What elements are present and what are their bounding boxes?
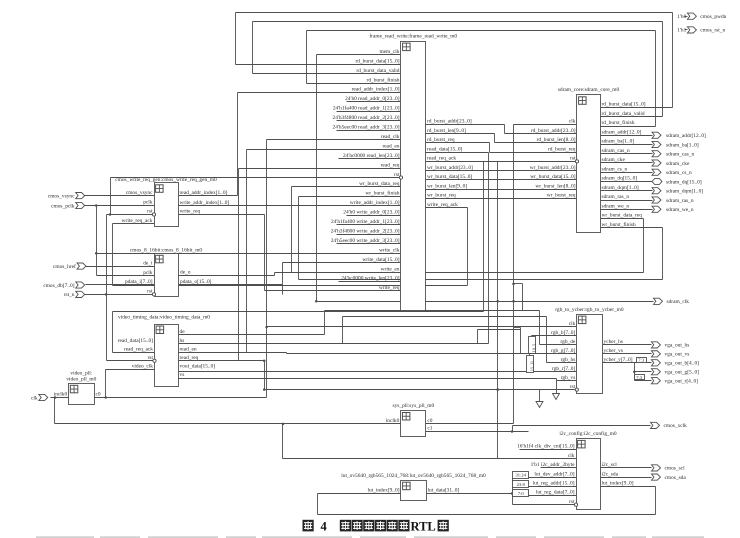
svg-text:10..5: 10..5	[531, 344, 536, 352]
svg-text:pclk: pclk	[143, 270, 153, 276]
svg-text:wr_burst_finish: wr_burst_finish	[365, 190, 399, 197]
svg-text:cmos_xclk: cmos_xclk	[664, 423, 688, 429]
svg-text:read_req: read_req	[381, 162, 400, 168]
svg-text:cmos_write_req_gen:cmos_write_: cmos_write_req_gen:cmos_write_req_gen_m0	[115, 177, 217, 183]
svg-text:inclk0: inclk0	[386, 418, 400, 424]
svg-text:24'h0 write_addr_0[23..0]: 24'h0 write_addr_0[23..0]	[343, 210, 399, 216]
svg-text:rst: rst	[569, 499, 575, 505]
svg-text:rd_burst_addr[23..0]: rd_burst_addr[23..0]	[427, 119, 472, 125]
svg-text:rst: rst	[148, 355, 154, 361]
svg-text:cmos_vsync: cmos_vsync	[126, 190, 153, 196]
svg-text:pclk: pclk	[143, 200, 153, 206]
svg-text:cmos_href: cmos_href	[53, 263, 76, 270]
svg-text:rgb_to_ycber:rgb_to_ycber_m0: rgb_to_ycber:rgb_to_ycber_m0	[555, 307, 624, 313]
svg-text:vga_out_vs: vga_out_vs	[665, 352, 690, 358]
svg-text:wr_burst_len[8..0]: wr_burst_len[8..0]	[535, 183, 575, 189]
svg-text:1'h1: 1'h1	[677, 28, 686, 34]
svg-text:video_timing_data:video_timing: video_timing_data:video_timing_data_m0	[118, 315, 210, 321]
svg-text:de_i: de_i	[143, 260, 153, 266]
svg-text:rd_burst_finish: rd_burst_finish	[367, 76, 400, 83]
svg-text:rd_burst_data[15..0]: rd_burst_data[15..0]	[355, 58, 399, 64]
svg-text:sdram_dqm[1..0]: sdram_dqm[1..0]	[666, 189, 703, 195]
svg-text:read_req: read_req	[180, 355, 199, 361]
svg-text:sdram_cas_n: sdram_cas_n	[602, 148, 630, 154]
svg-text:ycber_y[7..0]: ycber_y[7..0]	[604, 357, 633, 363]
svg-text:inclk0: inclk0	[54, 392, 68, 398]
svg-text:sdram_cke: sdram_cke	[666, 161, 690, 167]
svg-text:rgb_de: rgb_de	[560, 339, 575, 345]
svg-text:sdram_core:sdram_core_m0: sdram_core:sdram_core_m0	[558, 87, 620, 93]
svg-text:pdata_o[15..0]: pdata_o[15..0]	[180, 279, 212, 285]
svg-text:clk: clk	[568, 453, 575, 459]
svg-text:lut_ov5640_rgb565_1024_768:lut: lut_ov5640_rgb565_1024_768:lut_ov5640_rg…	[341, 473, 486, 479]
svg-text:rst: rst	[570, 384, 576, 390]
svg-text:cmos_scl: cmos_scl	[665, 466, 686, 472]
svg-text:wr_burst_len[9..0]: wr_burst_len[9..0]	[427, 183, 467, 189]
svg-text:read_addr_index[1..0]: read_addr_index[1..0]	[180, 190, 228, 196]
svg-text:write_req_ack: write_req_ack	[122, 218, 153, 224]
svg-text:c1: c1	[427, 426, 432, 432]
svg-text:rst: rst	[147, 289, 153, 295]
svg-text:rd_burst_req: rd_burst_req	[548, 146, 576, 152]
svg-text:write_addr_index[1..0]: write_addr_index[1..0]	[350, 200, 400, 206]
svg-text:read_data[15..0]: read_data[15..0]	[118, 338, 154, 344]
svg-text:wr_burst_req: wr_burst_req	[427, 193, 456, 199]
svg-text:rd_burst_addr[23..0]: rd_burst_addr[23..0]	[531, 128, 576, 134]
svg-text:cmos_db[7..0]: cmos_db[7..0]	[43, 283, 74, 289]
svg-text:31:24: 31:24	[515, 473, 526, 478]
svg-text:24'h5eec00 write_addr_3[23..0]: 24'h5eec00 write_addr_3[23..0]	[331, 238, 400, 244]
svg-text:sdram_clk: sdram_clk	[667, 299, 690, 305]
svg-text:rgb_g[7..0]: rgb_g[7..0]	[551, 348, 575, 354]
svg-text:read_en: read_en	[382, 143, 399, 149]
svg-text:write_addr_index[1..0]: write_addr_index[1..0]	[180, 200, 230, 206]
svg-text:sdram_ras_n: sdram_ras_n	[666, 198, 694, 204]
svg-text:read_data[15..0]: read_data[15..0]	[427, 146, 463, 152]
svg-text:lut_index[9..0]: lut_index[9..0]	[602, 481, 634, 487]
svg-text:24'h1fa400 read_addr_1[23..0]: 24'h1fa400 read_addr_1[23..0]	[333, 105, 400, 112]
svg-text:lut_reg_addr[15..0]: lut_reg_addr[15..0]	[533, 481, 575, 487]
svg-text:1'b1 i2c_addr_2byte: 1'b1 i2c_addr_2byte	[531, 462, 576, 468]
svg-text:de_o: de_o	[180, 270, 191, 276]
svg-text:wr_burst_req: wr_burst_req	[547, 193, 576, 199]
svg-text:sdram_addr[12..0]: sdram_addr[12..0]	[602, 129, 642, 135]
svg-text:7:3: 7:3	[638, 357, 645, 362]
svg-text:cmos_sda: cmos_sda	[665, 475, 687, 481]
svg-text:clk: clk	[569, 119, 576, 125]
svg-text:ycber_hs: ycber_hs	[604, 339, 623, 345]
svg-text:rd_burst_data_valid: rd_burst_data_valid	[356, 68, 399, 74]
svg-text:lut_index[9..0]: lut_index[9..0]	[367, 488, 399, 494]
svg-text:cmos_pwdn: cmos_pwdn	[700, 14, 726, 20]
svg-text:rd_burst_len[8..0]: rd_burst_len[8..0]	[537, 137, 576, 143]
svg-text:RTL: RTL	[411, 520, 436, 534]
svg-text:video_clk: video_clk	[132, 364, 154, 370]
svg-text:lut_data[31..0]: lut_data[31..0]	[428, 488, 460, 494]
svg-text:24'h5eec00 read_addr_3[23..0]: 24'h5eec00 read_addr_3[23..0]	[333, 125, 400, 131]
svg-text:cmos_rst_n: cmos_rst_n	[700, 28, 725, 34]
svg-text:lut_dev_addr[7..0]: lut_dev_addr[7..0]	[534, 471, 574, 477]
svg-text:cmos_pclk: cmos_pclk	[51, 203, 75, 209]
svg-text:23:8: 23:8	[517, 482, 526, 487]
svg-text:read_en: read_en	[180, 346, 197, 352]
svg-text:24'h3f4800 read_addr_2[23..0]: 24'h3f4800 read_addr_2[23..0]	[333, 114, 400, 121]
svg-text:write_req_ack: write_req_ack	[427, 202, 458, 208]
svg-text:sdram_cas_n: sdram_cas_n	[666, 152, 694, 158]
svg-text:rst: rst	[147, 209, 153, 215]
svg-text:wr_burst_data[15..0]: wr_burst_data[15..0]	[530, 174, 575, 180]
svg-text:wr_burst_data[15..0]: wr_burst_data[15..0]	[427, 174, 472, 180]
svg-text:read_clk: read_clk	[381, 134, 400, 140]
svg-text:frame_read_write:frame_read_wr: frame_read_write:frame_read_write_m0	[369, 32, 457, 39]
svg-text:15..11: 15..11	[529, 361, 534, 371]
svg-text:vga_out_g[5..0]: vga_out_g[5..0]	[665, 370, 700, 376]
svg-text:vs: vs	[180, 372, 185, 378]
svg-text:vout_data[15..0]: vout_data[15..0]	[180, 364, 216, 370]
svg-text:video_pll_m0: video_pll_m0	[66, 377, 96, 383]
svg-text:write_data[15..0]: write_data[15..0]	[362, 257, 399, 263]
svg-text:rst_n: rst_n	[64, 292, 75, 298]
svg-text:clk: clk	[569, 321, 576, 327]
svg-text:ycber_vs: ycber_vs	[604, 348, 623, 354]
svg-text:sdram_cs_n: sdram_cs_n	[602, 166, 628, 172]
svg-text:sdram_addr[12..0]: sdram_addr[12..0]	[666, 133, 706, 139]
svg-text:rgb_vs: rgb_vs	[561, 375, 576, 381]
svg-text:de: de	[180, 329, 186, 335]
svg-text:rd_burst_data_valid: rd_burst_data_valid	[602, 111, 645, 117]
svg-text:vga_out_r[4..0]: vga_out_r[4..0]	[665, 379, 699, 385]
svg-text:7:3: 7:3	[636, 375, 643, 380]
svg-text:wr_burst_addr[23..0]: wr_burst_addr[23..0]	[427, 165, 473, 171]
svg-text:wr_burst_addr[23..0]: wr_burst_addr[23..0]	[530, 165, 576, 171]
svg-text:read_req_ack: read_req_ack	[427, 156, 456, 162]
svg-text:7:0: 7:0	[518, 491, 525, 496]
svg-text:sdram_dq[15..0]: sdram_dq[15..0]	[602, 176, 638, 182]
svg-text:rd_burst_data[15..0]: rd_burst_data[15..0]	[602, 102, 646, 108]
svg-text:24'hc0000 read_len[23..0]: 24'hc0000 read_len[23..0]	[343, 153, 400, 159]
svg-text:24'h3f4800 write_addr_2[23..0]: 24'h3f4800 write_addr_2[23..0]	[331, 227, 400, 234]
svg-text:24'h1fa400 write_addr_1[23..0]: 24'h1fa400 write_addr_1[23..0]	[331, 218, 400, 225]
svg-text:wr_burst_data_req: wr_burst_data_req	[359, 181, 400, 187]
svg-text:sdram_ras_n: sdram_ras_n	[602, 194, 630, 200]
svg-text:sdram_ba[1..0]: sdram_ba[1..0]	[602, 139, 635, 145]
svg-text:i2c_config:i2c_config_m0: i2c_config:i2c_config_m0	[559, 430, 616, 437]
svg-text:sdram_cs_n: sdram_cs_n	[666, 170, 692, 176]
svg-text:rd_burst_finish: rd_burst_finish	[602, 119, 635, 126]
svg-text:pdata_i[7..0]: pdata_i[7..0]	[125, 279, 153, 285]
svg-text:wr_burst_finish: wr_burst_finish	[602, 221, 636, 228]
svg-text:sys_pll:sys_pll_m0: sys_pll:sys_pll_m0	[393, 403, 435, 409]
svg-text:sdram_dqm[1..0]: sdram_dqm[1..0]	[602, 185, 639, 191]
svg-text:cmos_vsync: cmos_vsync	[48, 193, 75, 199]
svg-text:vga_out_hs: vga_out_hs	[665, 343, 690, 349]
svg-text:rgb_r[7..0]: rgb_r[7..0]	[552, 366, 575, 372]
svg-text:write_en: write_en	[381, 266, 400, 272]
svg-text:rgb_b[7..0]: rgb_b[7..0]	[551, 330, 575, 336]
svg-text:c0: c0	[96, 392, 101, 398]
svg-text:sdram_cke: sdram_cke	[602, 157, 626, 163]
svg-text:16'h1f4 clk_div_cnt[15..0]: 16'h1f4 clk_div_cnt[15..0]	[517, 443, 575, 450]
svg-text:write_req: write_req	[379, 285, 400, 291]
svg-text:sdram_ba[1..0]: sdram_ba[1..0]	[666, 142, 699, 148]
svg-text:vga_out_b[4..0]: vga_out_b[4..0]	[665, 361, 700, 367]
svg-text:i2c_sda: i2c_sda	[602, 471, 619, 477]
svg-text:rst: rst	[570, 156, 576, 162]
svg-text:sdram_dq[15..0]: sdram_dq[15..0]	[666, 179, 702, 185]
svg-text:sdram_we_n: sdram_we_n	[666, 207, 694, 213]
svg-text:rst: rst	[394, 172, 400, 178]
svg-text:wr_burst_data_req: wr_burst_data_req	[602, 213, 643, 219]
svg-text:c0: c0	[427, 418, 432, 424]
svg-text:cmos_8_16bit:cmos_8_16bit_m0: cmos_8_16bit:cmos_8_16bit_m0	[130, 247, 202, 253]
svg-text:i2c_scl: i2c_scl	[602, 462, 618, 468]
svg-text:1'h0: 1'h0	[677, 14, 686, 20]
svg-text:lut_reg_data[7..0]: lut_reg_data[7..0]	[536, 490, 575, 496]
svg-text:rgb_hs: rgb_hs	[561, 357, 576, 363]
svg-text:read_addr_index[1..0]: read_addr_index[1..0]	[352, 87, 400, 93]
svg-text:rd_burst_req: rd_burst_req	[427, 137, 455, 143]
svg-text:clk: clk	[31, 395, 38, 401]
svg-text:24'hc0000 write_len[23..0]: 24'hc0000 write_len[23..0]	[341, 276, 400, 282]
svg-text:hs: hs	[180, 338, 185, 344]
svg-text:write_clk: write_clk	[379, 247, 400, 253]
svg-text:rd_burst_len[9..0]: rd_burst_len[9..0]	[427, 128, 466, 134]
svg-text:24'h0 read_addr_0[23..0]: 24'h0 read_addr_0[23..0]	[345, 96, 400, 102]
svg-text:4: 4	[321, 520, 328, 534]
svg-text:write_req: write_req	[180, 209, 201, 215]
svg-text:read_req_ack: read_req_ack	[124, 346, 153, 352]
svg-text:sdram_we_n: sdram_we_n	[602, 203, 630, 209]
svg-text:mem_clk: mem_clk	[379, 49, 399, 55]
